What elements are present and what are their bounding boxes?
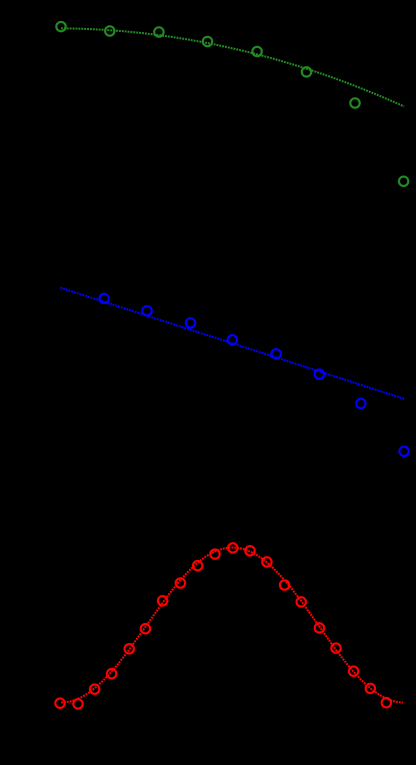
green data point 5 [252, 47, 261, 56]
green data point 2 [105, 26, 114, 35]
blue data point 5 [271, 349, 280, 358]
red data point 18 [349, 667, 358, 676]
red data point 17 [331, 643, 340, 652]
blue data point 6 [315, 370, 324, 379]
blue data point 3 [186, 318, 195, 327]
green data point 4 [203, 37, 212, 46]
red data point 3 [90, 685, 99, 694]
red data point 15 [297, 597, 306, 606]
green quadratic fit curve (dotted) [61, 28, 404, 106]
red data point 9 [193, 561, 202, 570]
blue data point 1 [99, 294, 108, 303]
red data point 20 [382, 698, 391, 707]
blue linear fit line (dotted) [60, 288, 405, 399]
blue data point 2 [142, 306, 151, 315]
red data point 8 [176, 578, 185, 587]
red data point 4 [107, 669, 116, 678]
red cosine-bump fit curve (dotted) [61, 548, 403, 703]
red data point 11 [228, 543, 237, 552]
red data point 1 [55, 699, 64, 708]
red data point 13 [262, 557, 271, 566]
red data point 10 [210, 549, 219, 558]
red data point 16 [315, 623, 324, 632]
green data point 6 [302, 67, 311, 76]
green data point 3 [154, 27, 163, 36]
red data point 12 [245, 546, 254, 555]
red data point 7 [158, 596, 167, 605]
red data point 2 [73, 699, 82, 708]
green data point 7 [350, 98, 359, 107]
blue data point 4 [228, 335, 237, 344]
red data point 6 [141, 624, 150, 633]
green data point 1 [56, 22, 65, 31]
red data point 14 [280, 580, 289, 589]
red data point 19 [366, 684, 375, 693]
blue data point 7 [356, 399, 365, 408]
green data point 8 [399, 177, 408, 186]
blue data point 8 [399, 447, 408, 456]
red data point 5 [125, 644, 134, 653]
